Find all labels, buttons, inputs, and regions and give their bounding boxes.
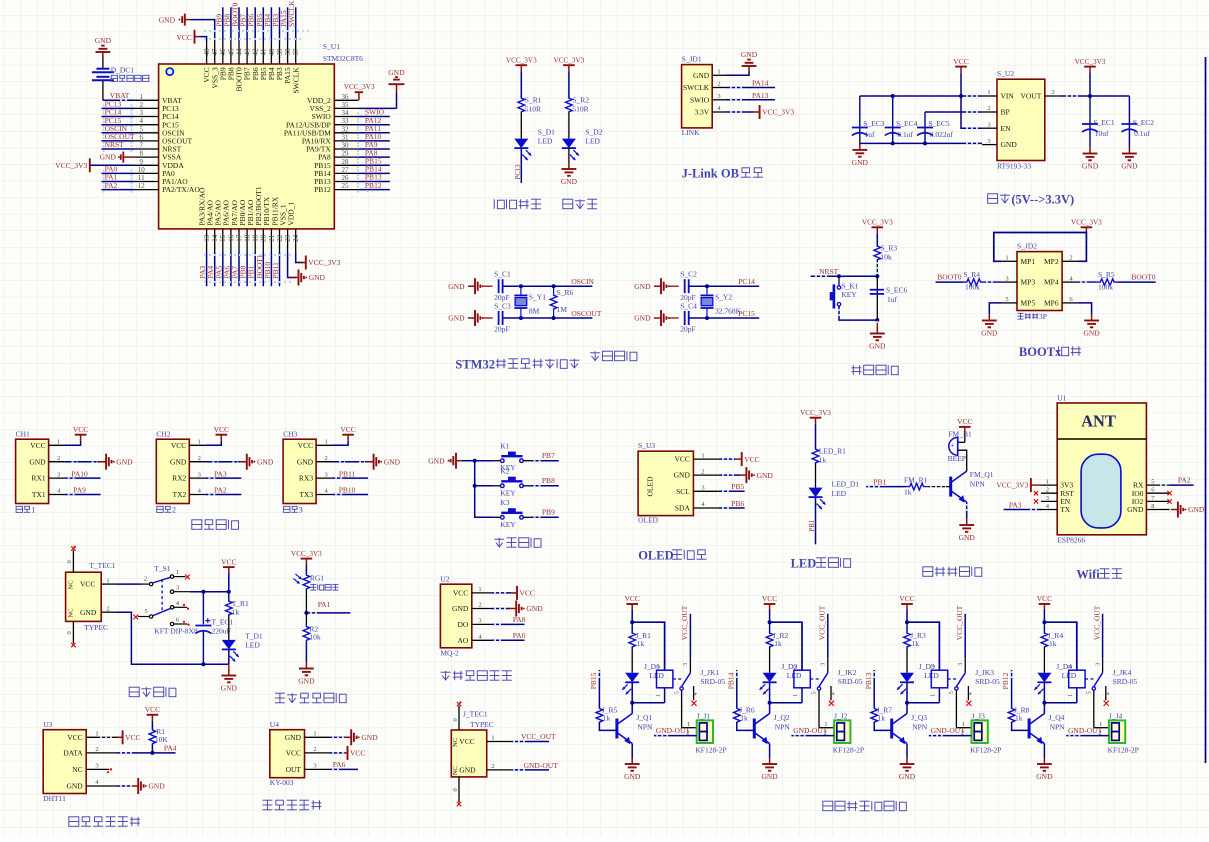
svg-text:OLED: OLED xyxy=(638,516,659,525)
wire MP5 to GND xyxy=(989,303,1001,314)
ANT divider xyxy=(1057,438,1146,440)
switch contact 3 xyxy=(170,584,189,593)
svg-text:7: 7 xyxy=(140,142,144,150)
resistor S_R2 xyxy=(566,96,590,114)
J_TEC1 top pin xyxy=(452,701,462,730)
pin 28 PB15 of U1 (right) xyxy=(314,158,358,170)
svg-text:3: 3 xyxy=(1046,495,1049,502)
wire VCC to J_R1 node xyxy=(630,610,634,624)
capacitor S_C1 xyxy=(494,270,511,303)
svg-text:8M: 8M xyxy=(529,307,540,316)
designator U3 xyxy=(43,720,52,729)
wire gnd to battery xyxy=(102,58,104,69)
pin 35 VSS_2 of U1 (right) xyxy=(310,101,359,113)
svg-text:PA6: PA6 xyxy=(333,760,346,769)
pin 21 PB10/TX of U1 (bottom) xyxy=(262,196,276,252)
svg-text:5: 5 xyxy=(1151,479,1154,486)
resistor R2 light xyxy=(303,613,321,642)
pin 1 VCC of CH1 xyxy=(30,439,64,450)
svg-text:2: 2 xyxy=(961,729,964,736)
designator J_TEC1 xyxy=(463,710,488,719)
svg-text:S_EC5: S_EC5 xyxy=(928,119,950,128)
power VCC at CH2 xyxy=(205,425,229,445)
LED S_D2 xyxy=(562,127,603,160)
svg-text:S_R3: S_R3 xyxy=(881,244,898,253)
svg-text:GND: GND xyxy=(561,177,578,186)
svg-text:PA0: PA0 xyxy=(513,631,526,640)
resistor S_R1 xyxy=(518,96,542,114)
relay J_JK4 switch xyxy=(1087,658,1112,706)
title relay control circuit xyxy=(823,801,907,811)
net label PB14 vertical xyxy=(726,670,736,709)
net label PB14 (U1 right pin 27) xyxy=(358,165,390,178)
svg-text:1: 1 xyxy=(478,586,481,593)
svg-text:S_C3: S_C3 xyxy=(494,302,511,311)
pin 4 TX of wifi U1 xyxy=(1041,503,1071,514)
relay J_JK1 switch xyxy=(674,658,699,706)
svg-text:3: 3 xyxy=(717,93,720,100)
wire relay contact to J_J1 pin1 xyxy=(682,690,697,728)
transistor J_Q1 NPN xyxy=(617,713,653,744)
svg-text:MP6: MP6 xyxy=(1044,299,1059,308)
svg-text:PB13: PB13 xyxy=(864,672,873,689)
svg-text:S_JD2: S_JD2 xyxy=(1017,242,1037,251)
relay J_JK3 switch xyxy=(949,658,974,706)
designator J_J4 xyxy=(1109,712,1123,721)
wire VCC_3V3 to S_R3 xyxy=(876,233,878,246)
key switch K2 xyxy=(494,467,532,498)
svg-text:PB11: PB11 xyxy=(271,262,280,279)
pin 36 VDD_2 of U1 (right) xyxy=(307,93,358,105)
wire relay contact to J_J4 pin1 xyxy=(1094,690,1109,728)
svg-text:T_S1: T_S1 xyxy=(154,564,171,573)
net label PA2 xyxy=(205,486,241,495)
svg-text:2: 2 xyxy=(324,455,327,462)
svg-text:42: 42 xyxy=(252,48,260,56)
wire VCC to J_R4 node xyxy=(1042,610,1046,624)
net label OSCIN xyxy=(571,277,594,286)
svg-text:MP4: MP4 xyxy=(1044,278,1059,287)
net label PC13 (U1 left pin 2) xyxy=(102,100,135,113)
svg-text:1: 1 xyxy=(987,89,990,96)
designator J_JK1 xyxy=(700,668,719,677)
net label PA4 xyxy=(117,744,177,753)
comment serial 2 xyxy=(157,506,176,515)
svg-text:GND: GND xyxy=(221,684,238,693)
svg-text:U3: U3 xyxy=(43,720,52,729)
svg-text:3: 3 xyxy=(821,663,827,666)
svg-text:1: 1 xyxy=(1068,694,1074,697)
svg-text:VCC: VCC xyxy=(953,57,968,66)
svg-text:PA10: PA10 xyxy=(71,469,88,478)
ANT label xyxy=(1081,412,1116,431)
ground below reset node xyxy=(869,320,886,351)
svg-text:2: 2 xyxy=(1046,487,1049,494)
power VCC above S_U2 xyxy=(953,57,968,73)
pin 24 VDD_1 of U1 (bottom) xyxy=(287,202,301,253)
svg-text:GND: GND xyxy=(257,457,274,466)
svg-text:PA2: PA2 xyxy=(1178,476,1191,485)
svg-text:GND-OUT: GND-OUT xyxy=(524,761,559,770)
connector J_J4 KF128-2P xyxy=(1109,720,1125,743)
svg-text:3: 3 xyxy=(324,471,327,478)
svg-text:3: 3 xyxy=(987,138,990,145)
crystal S_Y1 xyxy=(514,286,546,318)
title J-Link OB interface xyxy=(682,167,763,181)
ground at U1 pin 23 xyxy=(292,270,326,286)
svg-text:BEEP: BEEP xyxy=(948,454,966,463)
svg-text:TYPEC: TYPEC xyxy=(470,720,494,729)
svg-text:S_U3: S_U3 xyxy=(638,441,655,450)
svg-text:S_U2: S_U2 xyxy=(997,69,1014,78)
svg-text:K1: K1 xyxy=(500,441,509,450)
wire to relay coil top xyxy=(1044,622,1076,670)
power VCC_3V3 at U1 pin 24 xyxy=(300,256,341,270)
svg-text:3: 3 xyxy=(299,506,303,515)
net label GND-OUT 3 xyxy=(929,726,972,736)
resistor S_R5 xyxy=(1078,270,1156,292)
pin 1 VCC of U3 xyxy=(67,731,117,742)
svg-text:3: 3 xyxy=(140,109,144,117)
pin 6 IO0 of wifi U1 xyxy=(1132,487,1170,498)
net label PA15 (U1 top pin 38) xyxy=(279,7,288,41)
svg-text:1: 1 xyxy=(198,439,201,446)
net label SWCLK (U1 top pin 37) xyxy=(287,0,296,41)
pin 41 PB5 of U1 (top) xyxy=(259,41,268,80)
pin 22 PB11/RX of U1 (bottom) xyxy=(270,196,284,252)
svg-text:SWCLK: SWCLK xyxy=(683,83,710,92)
svg-text:1k: 1k xyxy=(740,714,748,723)
svg-text:3: 3 xyxy=(958,663,964,666)
svg-text:GND: GND xyxy=(459,766,476,775)
svg-text:S_R6: S_R6 xyxy=(557,288,574,297)
pin 43 PB7 of U1 (top) xyxy=(243,41,252,80)
net label PB10 xyxy=(332,486,368,495)
svg-text:1k: 1k xyxy=(603,714,611,723)
svg-text:4: 4 xyxy=(968,692,974,695)
power VCC above J_R3 xyxy=(899,594,914,610)
comment MQ-2 xyxy=(440,648,459,657)
power VCC_3V3 at wifi 3V3 xyxy=(996,478,1041,492)
svg-text:47: 47 xyxy=(211,48,219,56)
svg-text:T_EC1: T_EC1 xyxy=(212,618,234,627)
svg-text:KY-003: KY-003 xyxy=(270,778,294,787)
power VCC_3V3 at U1 pin 36 xyxy=(344,83,375,101)
pin 3 RX3 of CH3 xyxy=(299,471,332,482)
svg-text:5: 5 xyxy=(140,125,144,133)
svg-text:OSCOUT: OSCOUT xyxy=(571,309,601,318)
svg-text:18: 18 xyxy=(244,234,252,242)
ground at S_C1 top xyxy=(448,278,492,294)
designator J_J1 xyxy=(697,712,711,721)
comment LINK xyxy=(682,128,700,137)
wire FM_Q1 emitter to GND xyxy=(966,502,968,518)
svg-text:MP1: MP1 xyxy=(1021,257,1036,266)
svg-text:J_Q1: J_Q1 xyxy=(636,713,652,722)
power VCC_3V3 above S_JD2 xyxy=(1071,219,1102,234)
svg-text:S_EC1: S_EC1 xyxy=(1093,118,1115,127)
svg-text:PC15: PC15 xyxy=(738,309,755,318)
net label PB1 buzzer xyxy=(866,477,906,486)
transistor J_Q4 NPN xyxy=(1029,713,1065,744)
pin 20 PB2/BOOT1 of U1 (bottom) xyxy=(254,186,268,252)
svg-text:VBAT: VBAT xyxy=(110,91,130,100)
svg-text:ESP8266: ESP8266 xyxy=(1057,535,1085,544)
NRST wire xyxy=(811,274,880,278)
net label BOOT1 (U1 bottom pin 20) xyxy=(255,253,264,287)
net label GND-OUT 4 xyxy=(1066,726,1109,736)
svg-text:19: 19 xyxy=(252,234,260,242)
comment KF128-2P xyxy=(970,745,1001,754)
svg-text:GND: GND xyxy=(148,782,165,791)
svg-text:SRD-05: SRD-05 xyxy=(1113,677,1138,686)
wire S_D2 to GND xyxy=(568,148,570,162)
power VCC at U3 pin1 xyxy=(100,730,141,744)
svg-text:GND: GND xyxy=(634,282,651,291)
wire VCC to R1 xyxy=(151,721,153,729)
svg-text:26: 26 xyxy=(342,174,350,182)
pin 3 DO of U2 xyxy=(457,618,492,629)
power VCC at U1 pin 48 xyxy=(176,30,206,44)
net label PC14 (U1 left pin 3) xyxy=(102,108,135,121)
designator J_J3 xyxy=(972,712,986,721)
svg-text:5: 5 xyxy=(144,608,147,615)
net label PB1 vertical xyxy=(809,520,816,532)
net label PC14 xyxy=(738,277,755,286)
svg-text:GND: GND xyxy=(361,733,378,742)
comment TYPEC out xyxy=(470,720,494,729)
net label VBAT xyxy=(110,91,130,100)
ground below S_D2 xyxy=(561,163,578,187)
title LED light circuit xyxy=(791,557,851,571)
svg-text:PB1: PB1 xyxy=(809,520,816,532)
pin 31 PA10/RX of U1 (right) xyxy=(302,133,358,145)
J_TEC1 bottom pin xyxy=(452,777,461,806)
svg-text:VCC_3V3: VCC_3V3 xyxy=(55,161,87,170)
svg-text:S_Y1: S_Y1 xyxy=(529,293,546,302)
relay J_JK1 dashed link xyxy=(673,678,683,680)
comment KY-003 xyxy=(270,778,294,787)
designator U2 xyxy=(440,575,449,584)
svg-text:KEY: KEY xyxy=(500,488,516,497)
svg-text:VCC: VCC xyxy=(145,705,160,714)
net label GND-OUT 2 xyxy=(791,726,834,736)
svg-text:PC13: PC13 xyxy=(515,164,522,180)
no-connect marks wifi RST EN xyxy=(1034,491,1038,504)
net label PA8 xyxy=(492,615,526,624)
svg-text:3: 3 xyxy=(478,618,481,625)
svg-text:VCC: VCC xyxy=(298,441,313,450)
power VCC at U2 pin1 xyxy=(492,586,535,600)
svg-text:5: 5 xyxy=(812,691,818,694)
svg-text:4: 4 xyxy=(140,117,144,125)
svg-text:VCC: VCC xyxy=(176,33,191,42)
svg-text:3: 3 xyxy=(987,121,990,128)
pin 7 NRST of U1 (left) xyxy=(135,142,182,154)
net label PA6 (U1 bottom pin 16) xyxy=(222,253,231,287)
net label PB10 (U1 bottom pin 21) xyxy=(263,253,272,287)
svg-text:VCC_OUT: VCC_OUT xyxy=(521,732,556,741)
svg-text:S_R2: S_R2 xyxy=(572,96,589,105)
wire U1 pin 23 VSS_1 to GND xyxy=(288,253,296,278)
designator U1 wifi xyxy=(1057,394,1066,403)
svg-text:1k: 1k xyxy=(912,639,920,648)
svg-text:RX1: RX1 xyxy=(31,474,45,483)
comment OLED xyxy=(638,516,659,525)
pin 1 VCC of CH3 xyxy=(298,439,332,450)
svg-text:VCC: VCC xyxy=(459,737,474,746)
svg-text:PA1: PA1 xyxy=(318,600,331,609)
battery D_DC1 button cell xyxy=(92,69,114,81)
svg-text:NC: NC xyxy=(68,580,75,589)
resistor J_R1 xyxy=(629,622,651,673)
svg-text:16: 16 xyxy=(227,234,235,242)
svg-text:3P: 3P xyxy=(1039,312,1047,321)
connector J_J1 KF128-2P xyxy=(697,720,713,743)
svg-text:ANT: ANT xyxy=(1081,412,1116,431)
ground at U1 pin 35 xyxy=(358,68,405,109)
comment RT9193-33 xyxy=(997,162,1031,171)
svg-text:TX1: TX1 xyxy=(32,490,46,499)
svg-text:38: 38 xyxy=(284,48,292,56)
title power circuit xyxy=(129,687,176,697)
svg-text:TYPEC: TYPEC xyxy=(84,623,108,632)
wire VCC_3V3 to LED_R1 xyxy=(815,424,817,449)
svg-text:SWCLK: SWCLK xyxy=(291,67,300,94)
compile marks bottom xyxy=(204,255,292,282)
sheet border right xyxy=(1205,57,1207,763)
net label OSCOUT (U1 left pin 6) xyxy=(102,132,136,145)
wire VCC to J_R3 node xyxy=(905,610,909,624)
wire LED_R1 to LED_D1 xyxy=(815,463,817,488)
svg-text:VCC: VCC xyxy=(340,425,355,434)
pin 23 VSS_1 of U1 (bottom) xyxy=(278,204,292,252)
pin 14 PA4/AO of U1 (bottom) xyxy=(206,199,220,252)
svg-text:NPN: NPN xyxy=(912,722,928,731)
svg-text:J_JK2: J_JK2 xyxy=(838,668,857,677)
pin 1 VCC of T_TEC1 xyxy=(68,577,118,589)
ground at U1 pin 8 VSSA xyxy=(100,152,135,163)
pin 4 TX3 of CH3 xyxy=(299,488,332,499)
wire VCC to VIN xyxy=(860,73,982,98)
svg-text:RX2: RX2 xyxy=(172,474,186,483)
svg-text:PB1: PB1 xyxy=(873,477,886,486)
IC body U4 KY-003 xyxy=(270,730,305,778)
svg-text:S_C1: S_C1 xyxy=(494,270,511,279)
svg-text:1uf: 1uf xyxy=(865,130,876,139)
svg-text:PA13: PA13 xyxy=(752,91,769,100)
pin 2 MP2 of S_JD2 xyxy=(1044,255,1078,266)
pin 1 VBAT of U1 (left) xyxy=(135,93,183,105)
svg-text:100k: 100k xyxy=(1098,283,1113,292)
capacitor S_C3 xyxy=(494,302,511,334)
designator U4 xyxy=(270,720,279,729)
LED J_D1 xyxy=(622,662,664,695)
svg-text:0.1uf: 0.1uf xyxy=(897,130,913,139)
svg-text:10uf: 10uf xyxy=(1095,129,1109,138)
svg-text:J_Q2: J_Q2 xyxy=(774,713,790,722)
svg-text:28: 28 xyxy=(342,158,350,166)
designator J_JK3 xyxy=(975,668,994,677)
svg-text:48: 48 xyxy=(203,48,211,56)
svg-text:15: 15 xyxy=(219,234,227,242)
pin 27 PB14 of U1 (right) xyxy=(314,166,358,178)
svg-text:13: 13 xyxy=(203,234,211,242)
svg-text:OSCIN: OSCIN xyxy=(571,277,594,286)
svg-text:VCC_OUT: VCC_OUT xyxy=(955,605,964,640)
svg-text:2: 2 xyxy=(57,455,60,462)
svg-text:10k: 10k xyxy=(309,633,321,642)
svg-text:510R: 510R xyxy=(572,105,588,114)
switch contact 4 xyxy=(170,600,189,610)
svg-text:J-Link OB: J-Link OB xyxy=(682,167,739,181)
designator J_J2 xyxy=(834,712,848,721)
pin 2 GND of CH2 xyxy=(170,455,205,466)
resistor J_R3 xyxy=(904,622,926,673)
ground below S_EC2 xyxy=(1121,147,1138,171)
svg-text:MP2: MP2 xyxy=(1044,257,1059,266)
IC body U1 ESP8266 xyxy=(1057,403,1146,535)
pin 29 PA8 of U1 (right) xyxy=(318,150,358,162)
pin 3 EN of S_U2 xyxy=(982,121,1011,132)
svg-text:1: 1 xyxy=(656,694,662,697)
svg-text:BOOTx: BOOTx xyxy=(1019,345,1062,359)
net label PA3 (U1 bottom pin 13) xyxy=(198,253,207,287)
svg-text:45: 45 xyxy=(227,48,235,56)
svg-text:37: 37 xyxy=(292,48,300,56)
ground at S_C4 bottom xyxy=(634,310,678,326)
svg-text:K3: K3 xyxy=(500,498,509,507)
svg-text:1: 1 xyxy=(176,569,179,576)
wire OSCOUT row xyxy=(503,316,593,320)
relay J_JK4 coil xyxy=(1044,665,1085,703)
pin 4 PC15 of U1 (left) xyxy=(135,117,179,129)
net label PA2 (U1 left pin 12) xyxy=(102,181,135,194)
svg-text:PB9: PB9 xyxy=(542,508,555,517)
pin 2 GND of CH3 xyxy=(297,455,332,466)
net label PB3 (U1 top pin 39) xyxy=(271,7,280,41)
svg-text:GND: GND xyxy=(674,471,691,480)
resistor J_R5 xyxy=(596,705,617,722)
svg-text:VCC: VCC xyxy=(1037,594,1052,603)
net label PB6 xyxy=(719,499,745,508)
svg-text:VCC: VCC xyxy=(286,749,301,758)
ground at S_C3 bottom xyxy=(448,310,492,326)
IC body CH3 serial xyxy=(283,439,316,503)
svg-text:J_Q3: J_Q3 xyxy=(911,713,927,722)
relay J_JK3 dashed link xyxy=(948,678,958,680)
pin 3 MP3 of S_JD2 xyxy=(1002,275,1036,286)
pin 19 PB1/AO of U1 (bottom) xyxy=(246,199,260,252)
svg-text:AO: AO xyxy=(457,636,468,645)
net label PA1 xyxy=(306,600,350,613)
net label PA5 (U1 bottom pin 15) xyxy=(214,253,223,287)
pin 7 IO2 of wifi U1 xyxy=(1132,495,1170,506)
svg-text:VCC: VCC xyxy=(674,455,689,464)
svg-text:TX2: TX2 xyxy=(173,490,187,499)
LED J_D3 xyxy=(897,662,939,695)
LED J_D4 xyxy=(1034,662,1076,695)
pin 40 PB4 of U1 (top) xyxy=(267,41,276,80)
wire MP1-MP2 VCC rail xyxy=(994,233,1087,262)
svg-text:GND: GND xyxy=(428,456,445,465)
svg-text:VCC: VCC xyxy=(171,441,186,450)
pin 30 PA9/TX of U1 (right) xyxy=(306,142,358,154)
svg-text:T_D1: T_D1 xyxy=(245,631,263,640)
svg-text:8: 8 xyxy=(1151,503,1154,510)
svg-text:0.1uf: 0.1uf xyxy=(1134,129,1150,138)
net label VCC_OUT vertical 2 xyxy=(818,605,828,658)
